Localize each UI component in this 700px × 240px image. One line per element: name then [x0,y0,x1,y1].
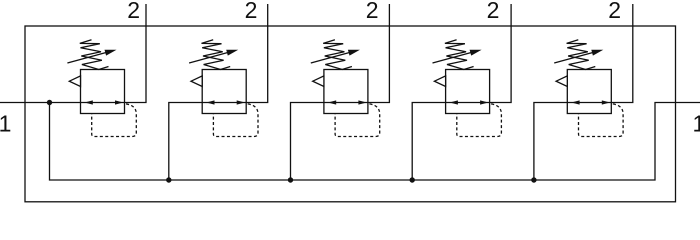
svg-text:2: 2 [245,0,258,23]
svg-text:1: 1 [693,111,700,137]
svg-text:1: 1 [0,111,11,137]
svg-text:2: 2 [127,0,140,23]
svg-text:2: 2 [608,0,621,23]
svg-text:2: 2 [366,0,379,23]
svg-text:2: 2 [487,0,500,23]
